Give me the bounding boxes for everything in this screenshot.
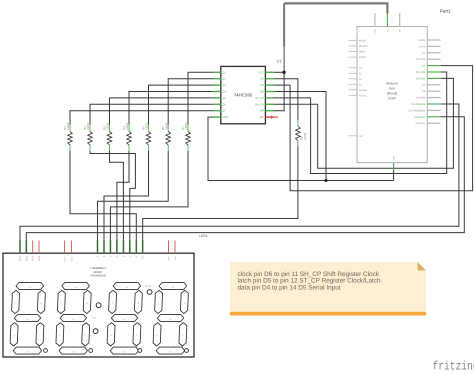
svg-text:MR: MR [260,110,264,113]
svg-text:Q4: Q4 [222,91,226,94]
svg-text:DIG3: DIG3 [32,255,35,261]
svg-text:N/C: N/C [359,135,363,138]
svg-text:74HC595: 74HC595 [234,93,253,98]
svg-text:D: D [116,255,119,257]
svg-text:D6 PWM: D6 PWM [416,77,425,80]
svg-text:D1/TX: D1/TX [419,45,426,48]
svg-text:A5/SCL: A5/SCL [359,94,368,97]
svg-text:OE: OE [260,91,264,94]
svg-text:D3 PWM: D3 PWM [416,58,425,61]
svg-text:AP-: AP- [174,256,177,260]
svg-text:RESET2: RESET2 [359,45,369,48]
svg-text:fritzing: fritzing [433,359,474,373]
svg-text:U1: U1 [277,59,283,64]
svg-text:220Ω: 220Ω [303,132,307,140]
svg-text:COL: COL [92,317,97,320]
svg-text:(Rev3): (Rev3) [387,92,397,96]
svg-text:SH_CP: SH_CP [255,103,264,106]
svg-text:RESET: RESET [359,39,367,42]
svg-text:D10 PWM/SS: D10 PWM/SS [411,103,426,106]
svg-text:220Ω: 220Ω [86,122,90,130]
svg-text:ST_CP: ST_CP [255,97,264,100]
svg-text:AREF: AREF [359,51,366,54]
svg-text:220Ω: 220Ω [125,122,129,130]
svg-text:data pin D4 to pin 14 D5 Seria: data pin D4 to pin 14 D5 Serial Input [238,284,341,291]
svg-text:D5 PWM: D5 PWM [416,71,425,74]
svg-text:Q0: Q0 [260,78,264,81]
svg-text:AP+: AP+ [168,255,171,260]
svg-text:IOREF: IOREF [359,56,367,59]
svg-text:APOS: APOS [145,285,152,288]
svg-text:GND: GND [222,116,228,119]
svg-text:DP: DP [142,255,145,259]
svg-text:D0/RX: D0/RX [418,39,425,42]
svg-text:D13/SCK: D13/SCK [416,122,426,125]
svg-text:GND: GND [393,155,396,160]
svg-text:LED1: LED1 [199,234,208,238]
svg-text:YOUNGSUN: YOUNGSUN [90,273,106,277]
svg-text:ICSP: ICSP [388,97,397,101]
svg-text:220Ω: 220Ω [145,122,149,130]
svg-text:G: G [135,256,138,258]
svg-text:Q6: Q6 [222,103,226,106]
svg-text:Q7′: Q7′ [260,116,265,119]
svg-text:D9 PWM: D9 PWM [416,97,425,100]
svg-text:COL-: COL- [70,256,73,262]
svg-text:COL+: COL+ [64,255,67,262]
svg-text:220Ω: 220Ω [164,122,168,130]
svg-text:Arduino: Arduino [386,82,398,86]
svg-text:Q1: Q1 [222,71,226,74]
svg-text:Q2: Q2 [222,78,226,81]
svg-text:220Ω: 220Ω [184,122,188,130]
svg-text:VCC: VCC [258,71,264,74]
svg-text:C: C [109,255,112,257]
svg-text:Uno: Uno [389,87,395,91]
svg-text:Q5: Q5 [222,97,226,100]
svg-text:D11 PWM/MOSI: D11 PWM/MOSI [408,109,425,112]
svg-text:Part1: Part1 [440,9,451,14]
svg-text:DIG2: DIG2 [25,255,28,261]
svg-text:DIG1: DIG1 [19,255,22,261]
svg-text:220Ω: 220Ω [106,122,110,130]
svg-text:D12/MISO: D12/MISO [414,116,425,119]
svg-text:220Ω: 220Ω [66,122,70,130]
svg-text:DIG4: DIG4 [38,255,41,261]
svg-text:Q7: Q7 [222,110,226,113]
svg-text:VIN: VIN [399,29,402,33]
svg-text:Q3: Q3 [222,84,226,87]
svg-text:DS: DS [260,84,264,87]
svg-text:A4/SDA: A4/SDA [359,89,368,92]
